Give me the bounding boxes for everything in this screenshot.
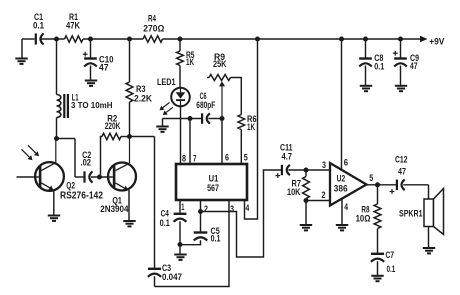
svg-text:2N3904: 2N3904	[100, 204, 129, 214]
svg-text:2.2K: 2.2K	[134, 94, 152, 104]
svg-text:R3: R3	[136, 84, 146, 94]
svg-text:5: 5	[244, 153, 248, 163]
svg-text:C4: C4	[161, 209, 170, 219]
svg-text:Q2: Q2	[66, 180, 75, 190]
svg-text:220K: 220K	[105, 121, 121, 131]
svg-text:RS276-142: RS276-142	[60, 190, 103, 201]
svg-text:3 TO 10mH: 3 TO 10mH	[71, 100, 113, 110]
svg-text:1: 1	[181, 202, 184, 212]
svg-text:270Ω: 270Ω	[143, 24, 164, 34]
svg-text:+9V: +9V	[429, 36, 445, 47]
svg-text:0.1: 0.1	[387, 264, 396, 274]
svg-text:10K: 10K	[287, 187, 301, 197]
svg-text:0.1: 0.1	[33, 21, 44, 31]
svg-text:2: 2	[204, 204, 208, 214]
svg-text:4: 4	[344, 202, 348, 212]
svg-text:U2: U2	[337, 173, 346, 183]
svg-text:0.1: 0.1	[374, 62, 384, 72]
svg-text:386: 386	[334, 183, 348, 193]
svg-text:4: 4	[246, 203, 250, 213]
svg-text:47: 47	[410, 61, 418, 71]
svg-text:7: 7	[193, 154, 197, 164]
svg-text:R4: R4	[148, 13, 157, 23]
svg-text:47K: 47K	[66, 21, 80, 31]
svg-text:LED1: LED1	[157, 77, 176, 87]
svg-text:0.1: 0.1	[160, 218, 170, 228]
svg-text:680pF: 680pF	[196, 100, 215, 110]
svg-text:3: 3	[322, 160, 326, 170]
svg-text:47: 47	[99, 62, 109, 72]
svg-text:10Ω: 10Ω	[356, 213, 371, 223]
svg-text:567: 567	[207, 183, 219, 193]
svg-text:0.047: 0.047	[162, 272, 182, 282]
svg-text:47: 47	[398, 167, 406, 177]
svg-text:8: 8	[182, 154, 186, 164]
svg-text:6: 6	[225, 153, 229, 163]
svg-text:4.7: 4.7	[282, 152, 293, 162]
svg-text:0.1: 0.1	[211, 234, 221, 244]
svg-text:.02: .02	[81, 158, 92, 168]
svg-text:25K: 25K	[213, 59, 227, 69]
svg-text:1K: 1K	[186, 57, 194, 67]
svg-text:5: 5	[369, 173, 373, 183]
svg-text:2: 2	[322, 190, 326, 200]
svg-text:3: 3	[230, 204, 234, 214]
svg-text:SPKR1: SPKR1	[399, 209, 423, 219]
svg-text:C7: C7	[386, 250, 395, 260]
svg-text:1K: 1K	[247, 122, 255, 132]
svg-text:6: 6	[344, 158, 348, 168]
svg-text:C12: C12	[395, 155, 408, 165]
